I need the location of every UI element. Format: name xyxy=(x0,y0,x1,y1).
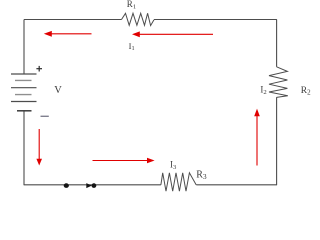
current arrow (top-left, pointing left toward battery) xyxy=(44,31,92,37)
wire direction marker (small black arrowhead on bottom wire) xyxy=(86,183,92,188)
wire: left vertical lower segment (battery - to bottom-left corner) xyxy=(23,111,25,185)
junction dot on bottom wire xyxy=(64,183,69,188)
svg-text:I3: I3 xyxy=(170,160,177,171)
wire: right vertical upper segment (top-right corner to R2 top) xyxy=(276,20,278,67)
svg-text:R3: R3 xyxy=(196,170,207,182)
svg-text:R2: R2 xyxy=(301,86,311,96)
resistor R2 xyxy=(269,67,288,98)
resistor R3 xyxy=(161,173,196,191)
svg-text:V: V xyxy=(54,85,62,96)
junction dot on bottom wire (right of marker) xyxy=(92,183,97,188)
wire: top-left horizontal segment (battery + to R1 left lead) xyxy=(24,19,122,21)
wire: top-right horizontal segment (R1 right lead to top-right corner) xyxy=(154,19,277,21)
wire: right vertical lower segment (R2 bottom to bottom-right corner) xyxy=(276,97,278,185)
current arrow I1 (pointing left, below R1) xyxy=(132,31,213,37)
resistor R1 xyxy=(122,13,155,25)
svg-text:I1: I1 xyxy=(129,41,135,52)
svg-text:I2: I2 xyxy=(260,85,266,96)
battery negative terminal label - xyxy=(41,115,49,117)
battery V (3-cell battery symbol) xyxy=(11,74,37,111)
current arrow I2 (pointing up, left of R2) xyxy=(254,109,260,166)
current arrow (left side, pointing down toward bottom wire) xyxy=(36,129,42,166)
battery positive terminal label + xyxy=(36,66,42,72)
wire: bottom-right horizontal segment (bottom-right corner to R3 right lead) xyxy=(196,184,277,186)
wire: bottom-left horizontal segment (R3 left lead to bottom-left corner) xyxy=(24,184,161,186)
wire: left vertical upper segment (top-left corner to battery +) xyxy=(23,20,25,75)
svg-text:R1: R1 xyxy=(127,0,136,11)
current arrow I3 (pointing right, above bottom wire) xyxy=(93,158,155,164)
